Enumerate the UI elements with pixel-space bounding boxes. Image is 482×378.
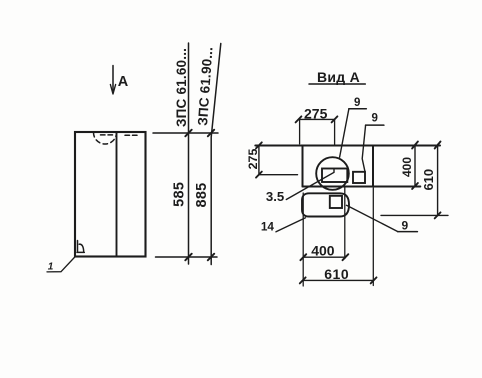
- extension line top (585/885): [153, 132, 218, 134]
- svg-text:610: 610: [324, 266, 349, 282]
- svg-text:А: А: [118, 74, 129, 90]
- right dimension line 400: [414, 145, 416, 187]
- label 9 #1 leader: [349, 108, 366, 110]
- extension line x=373.3 down: [372, 188, 374, 286]
- square inside stadium: [330, 196, 342, 208]
- rect inside circle: [322, 169, 347, 183]
- svg-text:585: 585: [172, 182, 188, 207]
- panel outline (front view): [75, 132, 146, 257]
- hidden lifting-loop arc (dashed): [94, 133, 117, 145]
- label 14 leader: [276, 218, 306, 232]
- small square right: [353, 172, 365, 183]
- label 3.5 leader: [286, 169, 334, 200]
- svg-text:9: 9: [371, 112, 377, 124]
- panel joint line: [116, 132, 118, 257]
- svg-text:9: 9: [402, 218, 409, 232]
- 610 bottom extension: [381, 214, 448, 216]
- bottom dimension line 610: [303, 279, 374, 281]
- svg-text:14: 14: [261, 220, 275, 234]
- top 275 dimension: [299, 118, 335, 120]
- label 9 #3 leader: [398, 231, 418, 233]
- stadium shape below: [302, 193, 349, 216]
- svg-text:610: 610: [421, 169, 436, 191]
- svg-text:ЗПС 61.60...: ЗПС 61.60...: [174, 48, 189, 127]
- 275 lower extension: [259, 174, 298, 176]
- strip left edge: [302, 146, 304, 187]
- svg-text:275: 275: [304, 105, 328, 121]
- ticks view A: [256, 116, 441, 283]
- svg-text:9: 9: [354, 97, 360, 109]
- svg-text:1: 1: [48, 262, 54, 273]
- strip bottom edge: [303, 186, 421, 188]
- svg-text:400: 400: [400, 157, 414, 177]
- label 9 #2 leader: [366, 124, 384, 126]
- circle opening: [316, 157, 349, 190]
- svg-text:Вид А: Вид А: [317, 69, 360, 85]
- hidden edge dashes left: [101, 134, 114, 136]
- strip right edge: [372, 146, 374, 187]
- right dimension line 610: [437, 145, 439, 216]
- strip top edge: [255, 145, 440, 147]
- leader to detail 1: [47, 257, 75, 272]
- right strip-bottom extension: [376, 185, 420, 187]
- corner detail shape: [77, 241, 84, 253]
- extension line x=303 down: [302, 193, 304, 286]
- left 275 dimension line: [258, 145, 260, 174]
- tick marks: [185, 130, 214, 261]
- svg-text:3.5: 3.5: [266, 189, 284, 204]
- svg-text:885: 885: [194, 182, 210, 207]
- extension line x=344.8 down: [344, 187, 346, 259]
- view direction arrow A: [112, 66, 114, 91]
- bottom dimension line 400: [303, 256, 345, 258]
- dimension line 585: [188, 43, 190, 264]
- dimension line 885: [211, 44, 221, 265]
- hidden edge dashes right: [125, 133, 137, 135]
- svg-text:275: 275: [246, 149, 260, 170]
- svg-text:400: 400: [311, 243, 335, 259]
- title underline: [309, 83, 365, 85]
- extension line bottom (585/885): [156, 256, 218, 258]
